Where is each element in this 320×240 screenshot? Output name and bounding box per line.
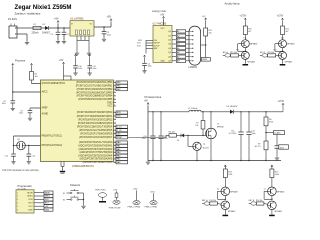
- capacitor C11: [89, 57, 91, 65]
- svg-text:MPSA42: MPSA42: [285, 61, 293, 64]
- transistor T7 MPSA92: [268, 187, 277, 196]
- svg-text:T2: T2: [203, 144, 205, 146]
- capacitor C17: [248, 112, 250, 132]
- svg-text:MPSA92: MPSA92: [230, 190, 238, 193]
- power flag +5V main: [110, 19, 112, 22]
- svg-text:PWR_PULS: PWR_PULS: [95, 189, 106, 191]
- svg-text:MPSA42: MPSA42: [248, 61, 256, 64]
- wire fuse-diode: [41, 27, 45, 29]
- ground U3: [60, 171, 65, 173]
- svg-text:(PCINT14/RESET)PC6: (PCINT14/RESET)PC6: [42, 83, 66, 85]
- svg-text:Z1 ZAS: Z1 ZAS: [8, 17, 17, 21]
- svg-text:AREF: AREF: [42, 107, 49, 110]
- ground U1 a: [76, 52, 78, 54]
- svg-text:SHCP: SHCP: [154, 43, 161, 45]
- svg-text:AN_A: AN_A: [223, 51, 228, 54]
- svg-text:TXD: TXD: [117, 116, 122, 118]
- svg-text:+5V: +5V: [202, 16, 206, 18]
- transistor T1 MOSFET: [210, 112, 212, 128]
- wire keys common: [83, 193, 85, 205]
- resistor R21: [281, 26, 285, 35]
- svg-text:(PCINT20/OC1B/XCK1/TXD)PD4: (PCINT20/OC1B/XCK1/TXD)PD4: [77, 125, 113, 128]
- transistor T R11 MPSA92: [241, 40, 249, 48]
- wire left rail: [147, 106, 149, 161]
- svg-text:Klawisze: Klawisze: [70, 183, 81, 187]
- ground PWR_PULS: [99, 201, 106, 203]
- svg-text:4: 4: [114, 91, 115, 93]
- svg-text:+5V: +5V: [59, 59, 64, 62]
- power flag +170V out: [282, 106, 284, 112]
- wire T2 collector: [198, 137, 200, 142]
- svg-text:LED2: LED2: [150, 192, 155, 194]
- wire emitter R21: [282, 48, 284, 52]
- net entry AN_A: [225, 54, 231, 57]
- svg-text:(ADC6/PCINT30/ADC7)PA6: (ADC6/PCINT30/ADC7)PA6: [83, 161, 113, 164]
- capacitor C19: [276, 135, 278, 146]
- resistor R17: [204, 28, 208, 36]
- svg-text:C13: C13: [32, 155, 35, 157]
- transistor T8 MPSA42: [268, 201, 277, 210]
- svg-text:PWR_PULSE: PWR_PULSE: [109, 208, 121, 210]
- svg-text:IRF630: IRF630: [217, 126, 224, 128]
- diode D1: [45, 26, 49, 30]
- regulator U1 7805: [70, 21, 94, 36]
- net entry AN_B: [262, 54, 268, 57]
- wire input top: [17, 27, 33, 29]
- wire T2 emitter: [196, 151, 198, 161]
- diode D2: [181, 134, 184, 138]
- svg-text:MPSA92: MPSA92: [250, 43, 258, 46]
- svg-text:R14 10k: R14 10k: [209, 200, 216, 202]
- svg-text:100n: 100n: [19, 113, 23, 115]
- svg-text:2: 2: [17, 196, 18, 198]
- svg-text:(PCINT19/INT1/OC2B/SCK)PD3: (PCINT19/INT1/OC2B/SCK)PD3: [78, 122, 113, 125]
- svg-text:D3 UF4007: D3 UF4007: [227, 106, 239, 108]
- capacitor C1: [57, 28, 59, 32]
- svg-text:MISO: MISO: [45, 196, 51, 198]
- svg-text:4k7 1%: 4k7 1%: [255, 146, 261, 148]
- svg-text:5: 5: [17, 206, 18, 208]
- wire AVCC: [12, 67, 14, 101]
- svg-text:470u: 470u: [142, 138, 146, 140]
- resistor R6: [169, 134, 177, 137]
- svg-text:(PCINT22/ICP1/T0/MOSI)PD6: (PCINT22/ICP1/T0/MOSI)PD6: [80, 133, 113, 136]
- svg-text:VCC: VCC: [107, 105, 112, 108]
- svg-text:PB7(XTAL2/TOSC2): PB7(XTAL2/TOSC2): [42, 144, 63, 147]
- power flag +5V AVCC: [12, 63, 14, 66]
- svg-text:SCK: SCK: [45, 199, 50, 201]
- ground C9: [29, 117, 31, 119]
- wires U3 ground pins: [60, 162, 62, 167]
- svg-text:1: 1: [17, 192, 18, 194]
- wire R6-D2: [177, 134, 181, 136]
- svg-text:U1 LM7805: U1 LM7805: [70, 17, 84, 21]
- capacitor C4: [144, 58, 146, 63]
- svg-text:Procesor: Procesor: [15, 59, 26, 63]
- svg-text:14: 14: [114, 129, 116, 131]
- svg-text:Zegar Nixie1 Z595M: Zegar Nixie1 Z595M: [15, 4, 72, 11]
- svg-text:KAT_A: KAT_A: [202, 199, 208, 202]
- svg-text:R22 10k: R22 10k: [267, 52, 274, 54]
- svg-text:+170V: +170V: [277, 101, 284, 103]
- ground connector: [26, 41, 28, 43]
- resistor R15: [270, 169, 274, 178]
- svg-text:T7: T7: [264, 189, 266, 191]
- crystal Q2: [14, 145, 17, 147]
- svg-text:Zasilacz i stabilizator: Zasilacz i stabilizator: [15, 11, 41, 15]
- svg-text:+LED: +LED: [133, 189, 138, 191]
- svg-text:100n: 100n: [148, 66, 152, 68]
- svg-text:MPSA92: MPSA92: [277, 190, 285, 193]
- svg-text:2: 2: [114, 84, 115, 86]
- transistor T6 MPSA42: [221, 201, 230, 210]
- ground C12: [13, 160, 15, 162]
- svg-text:10k: 10k: [195, 125, 198, 127]
- wire bottom rail: [148, 160, 281, 162]
- svg-text:MISO: MISO: [27, 196, 33, 198]
- svg-text:PWM_CYFRB: PWM_CYFRB: [145, 207, 158, 209]
- svg-text:35: 35: [114, 148, 116, 150]
- svg-text:BC547: BC547: [203, 148, 209, 150]
- capacitor C10: [75, 57, 77, 65]
- svg-text:34: 34: [114, 144, 116, 146]
- net entry KAT_B: [251, 202, 257, 205]
- wire U1 gnd left: [76, 40, 78, 51]
- resistor R22 base: [268, 54, 276, 57]
- svg-text:Lampy nixie: Lampy nixie: [152, 9, 166, 13]
- svg-text:3: 3: [114, 88, 115, 90]
- resistor R7: [202, 112, 204, 121]
- net label U_ADC: [274, 131, 285, 135]
- ground C3: [103, 38, 105, 40]
- ground C19: [276, 156, 278, 158]
- svg-text:15: 15: [114, 132, 116, 134]
- svg-text:39: 39: [114, 161, 116, 163]
- wire reset: [31, 80, 33, 84]
- svg-text:470k: 470k: [269, 121, 273, 123]
- svg-text:36: 36: [114, 151, 116, 153]
- power flag +5V reset: [31, 63, 33, 66]
- wire base loop R11: [238, 43, 242, 45]
- wire U1 output: [94, 26, 111, 28]
- wire base loop R21: [275, 43, 279, 45]
- capacitor C15: [160, 112, 162, 136]
- resistor R11: [243, 26, 247, 35]
- svg-text:22k: 22k: [209, 32, 212, 34]
- capacitor C16: [240, 112, 242, 132]
- wires U2 left pins: [146, 39, 153, 41]
- svg-text:5: 5: [114, 95, 115, 97]
- wire top rail right: [234, 111, 283, 113]
- svg-text:T5: T5: [217, 189, 219, 191]
- svg-text:+5V: +5V: [45, 206, 49, 208]
- svg-text:GND: GND: [45, 209, 50, 211]
- svg-text:PB6(XTAL1/TOSC1): PB6(XTAL1/TOSC1): [42, 135, 63, 138]
- capacitor C9: [28, 110, 33, 112]
- svg-text:MPSA42: MPSA42: [275, 210, 283, 213]
- svg-text:C12: C12: [5, 155, 8, 157]
- svg-text:C12,C13 montowac w razie potrz: C12,C13 montowac w razie potrzeby: [2, 169, 40, 172]
- svg-text:VCC: VCC: [160, 28, 165, 30]
- svg-text:LED: LED: [117, 133, 121, 135]
- svg-text:6: 6: [17, 209, 18, 211]
- svg-text:+5V: +5V: [107, 16, 112, 19]
- resistor R16 base: [256, 202, 264, 205]
- wire gate drive from MCU: [128, 137, 167, 139]
- fuse F1: [33, 26, 41, 29]
- svg-text:Anody lamp: Anody lamp: [225, 2, 240, 6]
- svg-text:100k: 100k: [275, 174, 279, 176]
- wire emitter T7: [271, 196, 273, 200]
- svg-text:10: 10: [114, 115, 116, 117]
- svg-text:VCC: VCC: [28, 206, 33, 208]
- wire input pin2: [17, 33, 27, 35]
- svg-text:38: 38: [114, 158, 116, 160]
- wire D2-gate: [184, 134, 206, 136]
- svg-text:MOSI: MOSI: [45, 192, 51, 194]
- svg-text:T21: T21: [281, 37, 284, 39]
- connector Z3 programmer: [16, 190, 34, 213]
- svg-text:100n: 100n: [280, 147, 284, 149]
- svg-text:37: 37: [114, 154, 116, 156]
- svg-text:SCK: SCK: [28, 199, 33, 201]
- wire AREF: [30, 107, 41, 109]
- svg-text:GND1: GND1: [202, 59, 207, 61]
- ground C10: [75, 71, 77, 73]
- capacitor C13: [27, 153, 32, 155]
- svg-text:9: 9: [114, 111, 115, 113]
- wire top rail left: [148, 111, 189, 113]
- wire VCC second pin: [70, 76, 72, 80]
- ground C1: [57, 40, 59, 42]
- net label C19 value: [279, 145, 289, 149]
- wire base loop T5: [218, 190, 222, 192]
- svg-text:100n: 100n: [2, 103, 6, 105]
- wires U2 outputs with net labels: [172, 30, 176, 32]
- decoupling C11 flag: [89, 54, 91, 57]
- ground C13: [28, 160, 30, 162]
- node +9V: [57, 27, 58, 28]
- svg-text:(PCINT21/OC1A/T1/MISO)PD5: (PCINT21/OC1A/T1/MISO)PD5: [79, 129, 113, 132]
- resistor R5: [31, 67, 33, 72]
- svg-text:8: 8: [114, 105, 115, 107]
- wire U1 gnd right: [88, 40, 90, 51]
- svg-text:100n: 100n: [78, 68, 82, 70]
- svg-text:AVCC: AVCC: [42, 91, 48, 94]
- svg-text:AGND: AGND: [42, 113, 49, 116]
- resistor R13: [223, 169, 227, 178]
- svg-text:R12 10k: R12 10k: [230, 52, 237, 54]
- wires programmer pins with net labels: [34, 192, 44, 194]
- ground keys: [83, 205, 85, 207]
- svg-text:MPSA42: MPSA42: [228, 210, 236, 213]
- svg-text:Programator: Programator: [18, 184, 33, 188]
- svg-text:D2: D2: [177, 140, 179, 142]
- svg-text:RST: RST: [29, 203, 34, 205]
- svg-text:100n: 100n: [107, 34, 111, 36]
- svg-text:RXD: RXD: [117, 112, 122, 114]
- svg-text:MPSA92: MPSA92: [287, 43, 295, 46]
- svg-text:33: 33: [114, 141, 116, 143]
- IC U3 ATMEGA: [41, 80, 114, 162]
- svg-text:16: 16: [114, 136, 116, 138]
- ground C8: [12, 107, 14, 109]
- resistor R12 base: [231, 54, 239, 57]
- svg-text:12: 12: [114, 122, 116, 124]
- svg-text:4u7 250V: 4u7 250V: [229, 133, 237, 135]
- wire R17 to Z2: [205, 36, 207, 58]
- capacitor C12: [11, 153, 16, 155]
- power stub R15: [271, 165, 273, 169]
- svg-text:+5V: +5V: [144, 101, 149, 103]
- svg-text:(PCINT17/TXD0/RXD0/INT3)PD1: (PCINT17/TXD0/RXD0/INT3)PD1: [77, 115, 113, 118]
- ground T6: [224, 210, 226, 215]
- wire base loop T7: [264, 190, 268, 192]
- IC U3 right pin stubs and net labels: [114, 82, 117, 84]
- svg-text:T11: T11: [243, 37, 246, 39]
- capacitor C2: [63, 28, 65, 32]
- svg-text:MOSI: MOSI: [27, 192, 33, 194]
- pins U1 bottom: [76, 36, 78, 40]
- svg-text:U_ADC: U_ADC: [274, 132, 281, 135]
- power flag +9V: [57, 21, 59, 24]
- wire XTAL1: [14, 135, 41, 137]
- wire XTAL2: [29, 145, 41, 147]
- svg-text:GND: GND: [28, 209, 33, 211]
- svg-text:PWM_CYFRA: PWM_CYFRA: [128, 206, 141, 209]
- svg-text:S2: S2: [63, 199, 65, 201]
- ground C2: [63, 40, 65, 42]
- svg-text:R6 220: R6 220: [169, 132, 175, 134]
- svg-text:PWM: PWM: [117, 137, 122, 139]
- svg-text:S1: S1: [63, 193, 65, 195]
- wire diode-regulator: [49, 27, 70, 29]
- svg-text:(PCINT18/INT0/XCK0/OC1)PD2: (PCINT18/INT0/XCK0/OC1)PD2: [78, 118, 113, 121]
- svg-text:4: 4: [17, 203, 18, 205]
- ground C4: [144, 69, 146, 71]
- svg-text:10k: 10k: [35, 76, 38, 78]
- svg-text:1: 1: [114, 81, 115, 83]
- svg-text:R16 10k: R16 10k: [256, 200, 263, 202]
- svg-text:6: 6: [114, 98, 115, 100]
- svg-text:(PCINT23/OC2/OC2A/TDI)PD7: (PCINT23/OC2/OC2A/TDI)PD7: [79, 136, 113, 139]
- wire top rail mid: [201, 111, 230, 113]
- resistor R8: [265, 112, 267, 117]
- ground T8: [271, 210, 273, 215]
- svg-text:11: 11: [114, 118, 116, 120]
- svg-text:LAMPA1: LAMPA1: [189, 66, 198, 69]
- IC U2 74HC595: [153, 26, 172, 63]
- ground converter: [147, 161, 149, 163]
- svg-text:100k: 100k: [228, 174, 232, 176]
- svg-text:Przetwornica: Przetwornica: [145, 95, 162, 99]
- transistor T R21 MPSA92: [279, 40, 287, 48]
- wire emitter R11: [244, 48, 246, 52]
- svg-text:LED: LED: [114, 189, 118, 191]
- svg-text:100n: 100n: [164, 138, 168, 140]
- svg-text:MR: MR: [154, 48, 158, 50]
- wire divider node: [265, 126, 267, 141]
- svg-text:4k7: 4k7: [285, 31, 288, 33]
- svg-text:(PCINT16/RXD0/TXD0/INT2)PD0: (PCINT16/RXD0/TXD0/INT2)PD0: [77, 111, 113, 114]
- transistor T R12 MPSA42: [241, 51, 249, 59]
- capacitor C3: [103, 27, 105, 31]
- svg-text:100n: 100n: [93, 68, 97, 70]
- ground C11: [89, 71, 91, 73]
- ground driver R11: [244, 59, 246, 63]
- svg-text:ATMEGA8535P-PU: ATMEGA8535P-PU: [72, 165, 94, 168]
- resistor R14 base: [210, 202, 218, 205]
- svg-text:L1 100uH: L1 100uH: [188, 108, 198, 110]
- svg-text:1N4007: 1N4007: [42, 32, 51, 34]
- wire emitter T5: [224, 196, 226, 200]
- svg-text:3: 3: [17, 199, 18, 201]
- ground driver R21: [282, 59, 284, 63]
- transistor T R22 MPSA42: [279, 51, 287, 59]
- svg-text:+170V: +170V: [240, 16, 247, 18]
- capacitor C14: [152, 112, 154, 136]
- svg-text:4k7: 4k7: [248, 31, 251, 33]
- svg-text:STCP: STCP: [154, 45, 160, 47]
- svg-text:250mA: 250mA: [32, 31, 40, 34]
- wire T1 source: [210, 139, 212, 161]
- connector Z1: [9, 26, 17, 38]
- svg-text:KAT_B: KAT_B: [249, 199, 255, 202]
- resistor R9: [264, 141, 268, 150]
- svg-text:AN_B: AN_B: [260, 51, 265, 54]
- transistor T2 BC547: [187, 135, 189, 146]
- decoupling C10 flag: [75, 54, 77, 57]
- connector Z2 LAMPA: [189, 26, 201, 65]
- svg-text:100n: 100n: [252, 133, 256, 135]
- net label GND_L: [201, 58, 210, 62]
- capacitor C4 flag: [144, 55, 146, 58]
- svg-text:13: 13: [114, 125, 116, 127]
- capacitor C8: [11, 100, 16, 102]
- svg-text:+5V: +5V: [160, 14, 165, 16]
- ground U1 b: [88, 52, 90, 54]
- net entry KAT_A: [204, 202, 210, 205]
- transistor T5 MPSA92: [221, 187, 230, 196]
- svg-text:7: 7: [114, 101, 115, 103]
- svg-text:+9V: +9V: [54, 17, 59, 20]
- svg-text:+170V: +170V: [277, 16, 284, 18]
- power stub R13: [224, 165, 226, 169]
- svg-text:GND: GND: [160, 60, 165, 62]
